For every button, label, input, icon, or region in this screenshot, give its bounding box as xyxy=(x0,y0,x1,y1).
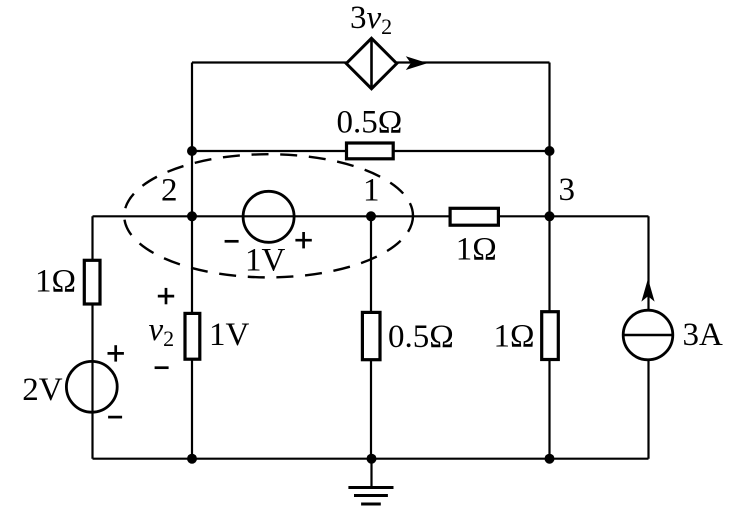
wire right column x=549.5 vertical xyxy=(548,63,550,459)
resistor 1ohm horizontal mid xyxy=(450,208,498,225)
node 1 dot xyxy=(366,211,376,221)
node dot second wire left xyxy=(187,146,197,156)
node 3 dot xyxy=(545,211,555,221)
resistor 0.5ohm horizontal top xyxy=(347,143,394,159)
bottom junction dot middle xyxy=(367,454,377,464)
svg-text:0.5Ω: 0.5Ω xyxy=(388,319,454,355)
resistor 0.5ohm middle vertical xyxy=(362,312,380,359)
resistor 1ohm left vertical xyxy=(84,260,100,304)
wire right branch vertical xyxy=(647,216,649,458)
svg-text:3A: 3A xyxy=(683,317,724,353)
wire main horizontal xyxy=(93,215,649,217)
dependent source U1 diamond 3v2 xyxy=(346,38,396,88)
label plus of 2V xyxy=(108,345,124,361)
wire left branch vertical xyxy=(91,216,93,458)
voltage source 1V circle xyxy=(243,191,294,242)
svg-text:3: 3 xyxy=(559,172,576,208)
label minus of 1V source xyxy=(225,240,239,243)
node 2 dot xyxy=(187,211,197,221)
ground xyxy=(348,459,393,504)
svg-text:0.5Ω: 0.5Ω xyxy=(337,105,403,141)
label minus of 2V xyxy=(108,416,122,419)
wire left column x=192 vertical xyxy=(191,63,193,459)
svg-text:1Ω: 1Ω xyxy=(35,264,76,300)
arrow 3A direction xyxy=(641,279,654,302)
label minus of v2 xyxy=(155,366,169,369)
svg-text:1Ω: 1Ω xyxy=(456,232,497,268)
node dot second wire right xyxy=(545,146,555,156)
bottom junction dot right xyxy=(545,454,555,464)
wire middle branch vertical xyxy=(370,216,372,458)
element 1V rectangle v2 branch xyxy=(185,313,200,359)
wire top horizontal xyxy=(192,61,550,63)
current source 3A circle xyxy=(623,310,673,360)
label plus of 1V source xyxy=(295,232,311,248)
wire bottom horizontal xyxy=(93,458,649,460)
resistor 1ohm right vertical xyxy=(542,312,559,360)
svg-text:1V: 1V xyxy=(209,317,250,353)
label plus of v2 xyxy=(158,288,174,304)
svg-text:2: 2 xyxy=(161,173,178,209)
bottom junction dot left xyxy=(187,454,197,464)
wire second horizontal xyxy=(192,150,550,152)
svg-text:2V: 2V xyxy=(22,372,63,408)
voltage source 2V circle xyxy=(66,361,117,412)
supernode dashed ellipse xyxy=(124,154,413,277)
svg-text:1V: 1V xyxy=(245,243,286,279)
svg-text:1: 1 xyxy=(363,173,380,209)
arrow current direction of 3v2 xyxy=(406,56,428,70)
svg-text:1Ω: 1Ω xyxy=(494,319,535,355)
